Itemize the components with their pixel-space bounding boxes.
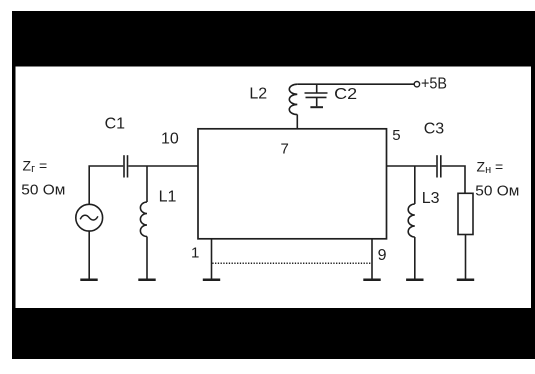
AC source G1 <box>76 204 103 231</box>
ground bar under C2 <box>310 106 323 108</box>
capacitor C1 right plate <box>127 155 129 177</box>
svg-text:50 Ом: 50 Ом <box>475 183 519 200</box>
wire box pin 5 to C3 <box>387 165 437 167</box>
ground bar under resistor <box>457 279 474 282</box>
svg-text:9: 9 <box>378 247 387 264</box>
wire C1 to box pin 10 <box>128 165 198 167</box>
wire L3 to ground <box>414 237 416 279</box>
load resistor RL <box>458 193 473 234</box>
svg-text:1: 1 <box>191 244 199 261</box>
amplifier box U1 <box>198 129 387 239</box>
capacitor C3 left plate <box>436 155 438 177</box>
capacitor C2 bottom plate <box>306 96 327 98</box>
wire source bottom to ground <box>88 231 90 279</box>
wire box top to L2 <box>296 115 298 129</box>
capacitor C2 stub from rail <box>316 84 318 93</box>
ground bar under pin 9 <box>363 279 380 282</box>
ground bar under pin 1 <box>203 279 220 282</box>
capacitor C3 right plate <box>440 155 442 177</box>
inductor L3 <box>408 204 415 237</box>
inductor L1 <box>140 202 147 237</box>
capacitor C1 left plate <box>123 155 125 177</box>
ground bar under source <box>80 279 97 282</box>
svg-text:C3: C3 <box>424 121 445 138</box>
svg-text:7: 7 <box>281 141 289 158</box>
dotted line between pin 1 and pin 9 grounds <box>212 262 372 264</box>
wire source top to C1 <box>89 166 123 204</box>
AC source sine symbol <box>80 215 98 220</box>
wire junction down to L1 <box>146 166 148 202</box>
svg-text:L3: L3 <box>422 190 440 207</box>
wire junction down to L3 <box>414 166 416 204</box>
wire L2 to +5V terminal <box>297 83 414 85</box>
svg-text:C2: C2 <box>334 86 357 103</box>
ground bar under L1 <box>138 279 155 282</box>
wire box pin 1 to ground <box>211 239 213 279</box>
capacitor C2 top plate <box>305 92 328 94</box>
svg-text:Zг =: Zг = <box>23 157 48 175</box>
wire L1 to ground <box>146 237 148 279</box>
+5V terminal circle <box>414 82 419 87</box>
svg-text:50 Ом: 50 Ом <box>21 182 65 199</box>
svg-text:5: 5 <box>392 127 400 144</box>
capacitor C2 stub to ground <box>316 97 318 106</box>
white schematic area <box>16 67 532 309</box>
wire resistor to ground <box>465 235 467 279</box>
inductor L2 <box>289 84 297 114</box>
wire C3 to load <box>442 166 465 193</box>
svg-text:+5В: +5В <box>421 76 447 93</box>
svg-text:L2: L2 <box>249 86 267 103</box>
svg-text:10: 10 <box>161 130 179 147</box>
wire box pin 9 to ground <box>371 239 373 279</box>
svg-text:L1: L1 <box>159 189 177 206</box>
ground bar under L3 <box>406 279 423 282</box>
svg-text:C1: C1 <box>105 115 126 132</box>
